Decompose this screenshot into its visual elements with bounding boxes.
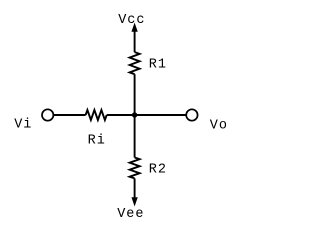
power Vcc arrow	[132, 24, 137, 32]
svg-text:Vee: Vee	[117, 207, 144, 222]
svg-text:Vcc: Vcc	[118, 13, 145, 28]
power Vee arrow	[132, 198, 137, 206]
svg-text:Ri: Ri	[88, 133, 106, 148]
resistor Ri	[86, 110, 107, 120]
wire node to R2	[134, 115, 136, 158]
wire Vi to Ri	[53, 114, 85, 116]
resistor R1	[130, 52, 140, 74]
svg-text:R1: R1	[149, 58, 167, 73]
terminal Vi	[42, 109, 53, 120]
wire Vcc to R1	[134, 31, 136, 53]
wire R2 to Vee arrow	[134, 178, 136, 198]
terminal Vo	[186, 109, 197, 120]
svg-text:Vo: Vo	[210, 119, 228, 134]
junction node	[132, 112, 137, 117]
resistor R2	[130, 158, 140, 179]
wire R1 to node	[134, 74, 136, 115]
wire node to Vo	[135, 114, 187, 116]
svg-text:R2: R2	[149, 162, 167, 177]
svg-text:Vi: Vi	[14, 118, 32, 133]
wire Ri to node	[107, 114, 135, 116]
